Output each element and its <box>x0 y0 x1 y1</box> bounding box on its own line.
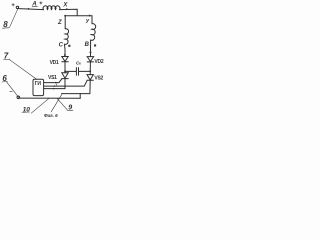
winding C polarity dot <box>68 45 70 47</box>
wire <box>63 44 66 56</box>
svg-text:VS1: VS1 <box>48 75 57 81</box>
gate VS1 <box>44 79 62 83</box>
inductor winding A <box>43 6 60 10</box>
winding A polarity dot <box>40 2 42 4</box>
diode VD1 <box>62 57 68 62</box>
node X dot <box>66 8 68 10</box>
wire VS1 cathode <box>64 79 66 89</box>
svg-text:B: B <box>85 42 90 48</box>
svg-text:VD1: VD1 <box>50 60 59 66</box>
leader 9 <box>57 99 67 110</box>
node left mid dot <box>64 54 66 56</box>
node right mid dot <box>90 51 92 53</box>
label 10 <box>23 107 31 114</box>
node cap left dot <box>64 70 66 72</box>
svg-text:y: y <box>85 18 90 24</box>
wire gi to vs1 cathode <box>44 88 65 90</box>
svg-text:VD2: VD2 <box>94 59 103 65</box>
minus polarity mark <box>10 90 12 92</box>
label A <box>31 0 37 7</box>
svg-text:X: X <box>62 2 68 8</box>
wire gi to vs2 gate <box>44 81 87 86</box>
node Y dot <box>89 15 91 17</box>
terminal minus input <box>17 96 20 99</box>
thyristor VS2 <box>87 75 93 81</box>
leader to line <box>51 94 62 112</box>
wire top left <box>19 9 44 10</box>
leader 6 <box>7 82 19 98</box>
svg-text:Фиг. 6: Фиг. 6 <box>44 113 58 118</box>
wire upper bus <box>65 16 92 24</box>
bus bottom <box>20 97 81 99</box>
terminal plus input <box>16 6 18 8</box>
leader 10 <box>31 98 49 113</box>
label 6 <box>2 74 7 83</box>
label Z <box>57 20 62 26</box>
leader 7 <box>10 60 37 80</box>
label X <box>62 2 68 8</box>
inductor winding B <box>91 24 96 41</box>
winding B polarity dot <box>94 44 96 46</box>
inductor winding C <box>64 29 68 45</box>
label 7 <box>4 51 9 60</box>
node gate line dot <box>64 85 66 87</box>
wire tee down to bus <box>79 94 81 99</box>
wire left branch top <box>64 16 66 29</box>
svg-text:ГИ: ГИ <box>35 81 42 87</box>
caption <box>44 113 58 118</box>
label Y <box>85 18 90 24</box>
label C <box>59 43 64 49</box>
label 9 <box>68 105 72 112</box>
capacitor Ck <box>65 68 90 76</box>
svg-text:Z: Z <box>57 20 62 26</box>
plus polarity mark <box>12 4 15 7</box>
wire VS2 cathode return <box>62 81 91 94</box>
svg-text:Cк: Cк <box>76 61 81 66</box>
label 8 <box>3 20 8 29</box>
wire <box>60 9 78 15</box>
thyristor VS1 <box>62 73 68 79</box>
node small dots near gi <box>55 82 57 84</box>
node A dot <box>28 8 30 10</box>
box GI pulse generator <box>33 79 44 95</box>
wire <box>90 40 92 57</box>
svg-text:VS2: VS2 <box>94 76 103 82</box>
wire <box>89 62 91 75</box>
node cap right dot <box>89 70 91 72</box>
svg-text:C: C <box>59 43 64 49</box>
node Z dot <box>64 15 66 17</box>
label B <box>85 42 90 48</box>
diode VD2 <box>87 57 93 62</box>
leader 8 <box>10 6 19 27</box>
wire <box>64 62 66 73</box>
